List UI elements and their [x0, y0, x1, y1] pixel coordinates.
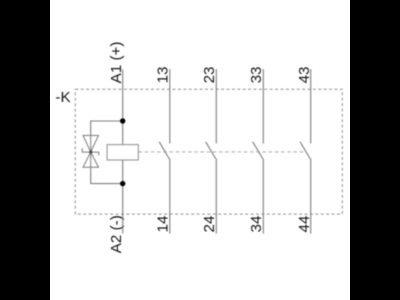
svg-text:34: 34 — [248, 216, 265, 233]
contact 33-34 top wire — [262, 69, 264, 144]
surge suppressor bottom triangle — [83, 152, 99, 167]
contact 43-44 top wire — [310, 69, 312, 144]
coil K — [107, 145, 138, 160]
svg-text:14: 14 — [155, 216, 172, 233]
contactor -K dashed outline — [75, 89, 342, 214]
NO contact 33-34 blade — [253, 142, 263, 159]
contact 23-24 bottom wire — [215, 159, 217, 234]
wire coil to A2 — [122, 160, 124, 234]
wire suppressor top branch — [91, 121, 123, 136]
svg-text:13: 13 — [155, 66, 172, 83]
wire suppressor through — [90, 136, 92, 168]
contact 33-34 bottom wire — [262, 159, 264, 234]
junction dot bottom (A2 node) — [120, 181, 125, 186]
surge suppressor Z-bar — [82, 148, 99, 155]
junction dot top (A1 node) — [120, 118, 125, 123]
wire A1 to coil — [122, 69, 124, 144]
contact 13-14 top wire — [169, 69, 171, 144]
contact 23-24 top wire — [215, 69, 217, 144]
contact 43-44 bottom wire — [310, 159, 312, 234]
svg-text:24: 24 — [201, 216, 218, 233]
surge suppressor top triangle — [83, 136, 99, 153]
svg-text:33: 33 — [248, 66, 265, 83]
wire suppressor bottom branch — [91, 167, 123, 183]
NO contact 43-44 blade — [300, 142, 310, 159]
contact 13-14 bottom wire — [169, 159, 171, 234]
NO contact 13-14 blade — [159, 142, 169, 159]
NO contact 23-24 blade — [206, 142, 216, 159]
suppressor center junction dot — [89, 150, 92, 153]
svg-text:-K: -K — [55, 89, 70, 106]
mechanical linkage line — [138, 151, 305, 153]
svg-text:23: 23 — [201, 66, 218, 83]
